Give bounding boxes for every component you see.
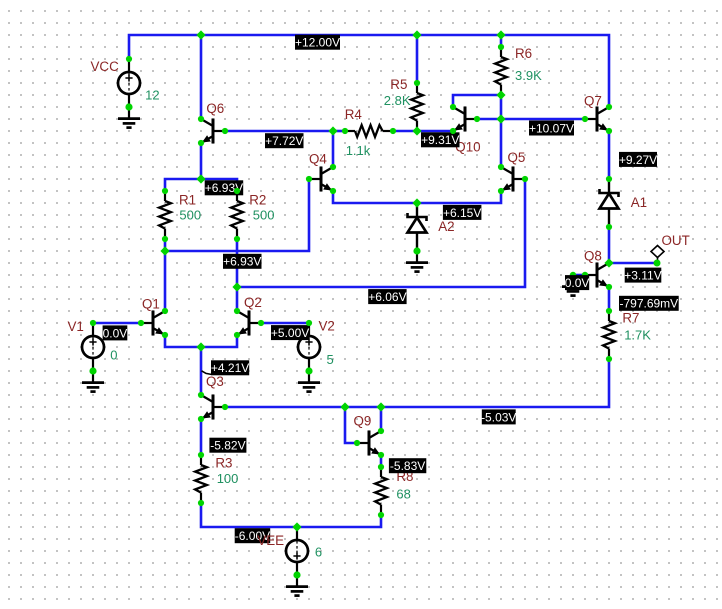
wire Q6 base to node <box>225 130 333 133</box>
transistor Q5 <box>501 167 525 192</box>
wire R2 bottom down <box>236 239 239 287</box>
svg-text:0.0V: 0.0V <box>565 276 590 290</box>
ground of VEE <box>286 575 308 596</box>
node junction at 501,95 <box>496 90 505 99</box>
terminal R4 left <box>342 128 348 134</box>
svg-text:500: 500 <box>253 208 275 223</box>
terminal Q5 collector <box>498 164 504 170</box>
output port OUT <box>651 246 664 264</box>
terminal Q7 collector <box>606 104 612 110</box>
terminal A1 bottom <box>606 224 612 230</box>
terminal R1 bottom <box>162 236 168 242</box>
voltage source V1 <box>82 323 104 371</box>
wire node to Q9 base <box>345 407 357 443</box>
terminal Q10 base <box>474 116 480 122</box>
wire node to Q7 base <box>501 118 585 121</box>
voltage source VCC <box>118 59 140 107</box>
terminal VCC + terminal <box>126 56 132 62</box>
terminal Q9 base <box>354 440 360 446</box>
terminal Q8 base (under box) <box>582 272 588 278</box>
svg-text:100: 100 <box>217 471 239 486</box>
voltage label +6.06V <box>368 289 406 304</box>
wire R6 bottom to node <box>500 95 503 119</box>
resistor R1 <box>159 191 171 239</box>
voltage label 0.0V V1 <box>103 325 128 340</box>
terminal Q10 emitter <box>450 128 456 134</box>
terminal Q1 emitter <box>162 332 168 338</box>
terminal Q5 base <box>522 176 528 182</box>
svg-text:-797.69mV: -797.69mV <box>619 297 678 311</box>
terminal Q2 emitter <box>234 332 240 338</box>
terminal V1 + terminal <box>90 320 96 326</box>
node junction at 417,203 <box>412 198 421 207</box>
voltage label +4.21V <box>211 360 249 375</box>
svg-text:-5.83V: -5.83V <box>390 459 425 473</box>
wire Q8 emitter to R7 <box>608 287 611 311</box>
wire R7 to bias rail <box>381 359 609 407</box>
terminal Q8 emitter <box>606 284 612 290</box>
svg-text:R3: R3 <box>215 456 232 471</box>
svg-text:+12.00V: +12.00V <box>295 36 340 50</box>
terminal Q1 base <box>138 320 144 326</box>
svg-text:-5.82V: -5.82V <box>210 439 245 453</box>
voltage source VEE <box>286 527 308 575</box>
wire node to Q1 collector <box>164 251 167 311</box>
voltage label -797.69mV <box>619 296 679 311</box>
wire node to Q2 emitter <box>201 335 237 347</box>
svg-text:0.0V: 0.0V <box>103 326 128 340</box>
terminal R7 top <box>606 308 612 314</box>
terminal A2 ground terminal <box>413 247 420 254</box>
ground of V2 <box>298 371 320 392</box>
terminal Q3 base <box>222 404 228 410</box>
voltage label 0.0V Q8 <box>565 275 590 290</box>
wire node to Q9 collector <box>380 407 383 431</box>
terminal OUT terminal <box>654 260 661 267</box>
wire bias rail to Q3 base <box>225 406 345 409</box>
svg-text:Q7: Q7 <box>584 94 602 109</box>
svg-text:V2: V2 <box>319 318 335 333</box>
svg-text:R2: R2 <box>249 192 266 207</box>
probe leader for +4.21V <box>202 371 212 375</box>
voltage label +6.15V <box>443 205 482 220</box>
node junction at 297,527 <box>292 522 301 531</box>
terminal Q1 collector <box>162 308 168 314</box>
resistor R7 <box>603 311 615 359</box>
wire node to Q2 collector <box>236 287 239 311</box>
transistor Q2 <box>237 311 261 336</box>
resistor R6 <box>495 47 507 95</box>
svg-text:+5.00V: +5.00V <box>271 326 309 340</box>
wire VCC to top rail <box>129 35 201 59</box>
terminal R3 top <box>198 452 204 458</box>
zener diode A1 <box>600 179 619 227</box>
wire bottom rail to R3 <box>201 503 297 527</box>
voltage label +6.93V lower <box>223 254 262 269</box>
terminal Q7 base <box>582 116 588 122</box>
ground of A2 <box>406 251 428 272</box>
wire node to R2 top <box>201 179 237 191</box>
transistor Q1 <box>141 311 165 336</box>
terminal VEE - ground terminal <box>293 571 300 578</box>
wire Q8 base to ground <box>573 274 585 277</box>
transistor Q3 <box>201 395 225 420</box>
terminal R4 right <box>390 128 396 134</box>
svg-text:+6.93V: +6.93V <box>223 255 261 269</box>
svg-text:Q5: Q5 <box>508 150 526 165</box>
svg-text:R7: R7 <box>622 311 639 326</box>
svg-text:+9.31V: +9.31V <box>421 133 459 147</box>
svg-text:R4: R4 <box>345 107 363 122</box>
svg-text:1.7K: 1.7K <box>624 328 651 343</box>
terminal A1 top <box>606 176 612 182</box>
svg-text:1.1k: 1.1k <box>346 143 371 158</box>
wire V1 to Q1 base <box>93 322 141 325</box>
svg-text:+6.15V: +6.15V <box>443 206 481 220</box>
voltage label -5.82V <box>209 438 246 453</box>
svg-text:Q9: Q9 <box>354 414 372 429</box>
wire A1 to node <box>608 227 611 263</box>
transistor Q9 <box>357 431 381 456</box>
resistor R3 <box>195 455 207 503</box>
wire Q3 emitter to R3 <box>200 419 203 455</box>
terminal Q4 emitter <box>330 188 336 194</box>
resistor R4 <box>345 125 393 137</box>
node junction at 333,131 <box>328 126 337 135</box>
terminal R2 top <box>234 188 240 194</box>
svg-text:+10.07V: +10.07V <box>529 121 574 135</box>
terminal R2 bottom <box>234 236 240 242</box>
svg-text:A1: A1 <box>631 195 647 210</box>
voltage label +5.00V <box>271 325 309 340</box>
wire Q9 emitter to R8 <box>380 455 383 467</box>
wire top rail A <box>201 34 417 37</box>
resistor R2 <box>231 191 243 239</box>
voltage label +10.07V <box>529 121 574 136</box>
node junction at 609,263 <box>604 258 613 267</box>
wire Q1 emitter to node <box>165 335 201 347</box>
wire node to R1 top <box>165 179 201 191</box>
wire top rail C to Q7 collector <box>501 35 609 107</box>
wire node to OUT <box>609 262 657 265</box>
svg-text:VEE: VEE <box>257 533 284 548</box>
node junction at 201,347 <box>196 342 205 351</box>
wire bias rail A <box>345 406 381 409</box>
wire node to Q4 collector <box>332 131 335 167</box>
svg-text:R6: R6 <box>515 46 532 61</box>
terminal Q3 emitter <box>198 416 204 422</box>
node junction at 417,131 <box>412 126 421 135</box>
wire node to Q5 emitter <box>417 191 501 203</box>
terminal Q7 emitter <box>606 128 612 134</box>
zener diode A2 <box>408 203 427 251</box>
voltage label -6.00V <box>235 528 271 543</box>
svg-text:VCC: VCC <box>91 59 120 74</box>
resistor R8 <box>375 467 387 515</box>
voltage label -5.03V <box>481 409 516 424</box>
terminal R1 top <box>162 188 168 194</box>
svg-text:Q8: Q8 <box>584 249 602 264</box>
wire Q6 emitter down <box>200 143 203 179</box>
terminal Q4 collector <box>330 164 336 170</box>
terminal Q9 collector <box>378 428 384 434</box>
terminal V2 + terminal <box>306 320 312 326</box>
terminal ground at Q8 base (under box) <box>570 272 576 278</box>
terminal Q9 emitter <box>378 452 384 458</box>
terminal Q6 emitter <box>198 140 204 146</box>
terminal Q6 collector <box>198 116 204 122</box>
svg-text:12: 12 <box>145 88 159 103</box>
svg-text:+3.11V: +3.11V <box>624 269 661 283</box>
wire top rail to R5 <box>416 35 419 83</box>
wire top rail to Q6 collector <box>200 35 203 119</box>
svg-text:+6.06V: +6.06V <box>368 290 406 304</box>
transistor Q6 <box>201 119 225 144</box>
terminal Q10 collector <box>450 104 456 110</box>
transistor Q4 <box>309 167 333 192</box>
wire top rail to R6 <box>500 35 503 47</box>
terminal R3 bottom <box>198 500 204 506</box>
voltage label +9.31V <box>421 132 460 147</box>
wire node to Q5 base <box>237 179 525 287</box>
wire R1 bottom to node <box>164 239 167 251</box>
terminal Q6 base <box>222 128 228 134</box>
terminal R8 bottom <box>378 512 384 518</box>
svg-text:Q6: Q6 <box>206 101 224 116</box>
terminal VCC - ground terminal <box>125 103 132 110</box>
svg-text:+9.27V: +9.27V <box>619 153 657 167</box>
node junction at 201,179 <box>196 174 205 183</box>
voltage label +7.72V <box>265 133 304 148</box>
terminal Q4 base <box>306 176 312 182</box>
svg-text:2.8K: 2.8K <box>384 93 411 108</box>
svg-text:5: 5 <box>327 352 334 367</box>
voltage label +6.93V upper <box>205 180 244 195</box>
svg-text:500: 500 <box>179 208 201 223</box>
svg-text:Q3: Q3 <box>206 374 224 389</box>
wire Q2 base to V2 <box>261 322 309 325</box>
terminal Q2 collector <box>234 308 240 314</box>
terminal R8 top <box>378 464 384 470</box>
svg-text:3.9K: 3.9K <box>515 68 542 83</box>
transistor Q7 <box>585 107 609 132</box>
node junction at 345,407 <box>340 402 349 411</box>
svg-text:0: 0 <box>110 348 117 363</box>
wire Q10 collector loop <box>453 95 501 107</box>
wire top rail B <box>417 34 501 37</box>
terminal R5 top <box>414 80 420 86</box>
terminal V1 - ground terminal <box>89 367 96 374</box>
wire Q10 base to node <box>477 118 501 121</box>
transistor Q10 <box>453 107 477 132</box>
terminal R7 bottom <box>606 356 612 362</box>
svg-text:Q2: Q2 <box>244 295 262 310</box>
resistor R5 <box>411 83 423 131</box>
voltage label -5.83V <box>389 458 426 473</box>
terminal Q3 collector <box>198 392 204 398</box>
svg-text:V1: V1 <box>68 319 84 334</box>
ground of Q8 base <box>562 275 584 296</box>
transistor Q8 <box>585 263 609 288</box>
svg-text:-5.03V: -5.03V <box>481 410 516 424</box>
terminal R6 top <box>498 44 504 50</box>
svg-text:OUT: OUT <box>662 233 690 248</box>
ground of V1 <box>82 371 104 392</box>
svg-text:+7.72V: +7.72V <box>265 134 303 148</box>
wire R8 to bottom rail <box>297 515 381 527</box>
node junction at 201,35 <box>196 30 205 39</box>
svg-text:Q1: Q1 <box>142 297 160 312</box>
wire R4 to node <box>393 130 417 133</box>
wire node to Q4 base <box>165 179 309 251</box>
svg-text:6: 6 <box>315 545 322 560</box>
svg-text:+4.21V: +4.21V <box>211 361 249 375</box>
terminal V2 - ground terminal <box>305 367 312 374</box>
terminal Q2 base <box>258 320 264 326</box>
node junction at 165,251 <box>160 246 169 255</box>
node junction at 237,287 <box>232 282 241 291</box>
svg-text:A2: A2 <box>438 219 454 234</box>
svg-text:68: 68 <box>396 487 410 502</box>
node junction at 381,407 <box>376 402 385 411</box>
wire Q7 emitter to A1 <box>608 131 611 179</box>
voltage label +9.27V <box>619 152 657 167</box>
voltage source V2 <box>298 323 320 371</box>
svg-text:R1: R1 <box>179 192 196 207</box>
node junction at 501,119 <box>496 114 505 123</box>
wire Q4 emitter to node <box>333 191 417 203</box>
node junction at 501,35 <box>496 30 505 39</box>
wire node to Q5 collector <box>500 119 503 167</box>
ground of VCC <box>118 107 140 128</box>
wire node to Q10 emitter <box>417 130 453 133</box>
wire node to R4 <box>333 130 345 133</box>
node junction at 417,35 <box>412 30 421 39</box>
terminal Q5 emitter <box>498 188 504 194</box>
svg-text:R5: R5 <box>390 77 407 92</box>
voltage label +3.11V <box>624 268 661 283</box>
wire node to Q3 collector <box>200 347 203 395</box>
svg-text:Q4: Q4 <box>309 152 327 167</box>
voltage label +12.00V <box>295 35 340 50</box>
